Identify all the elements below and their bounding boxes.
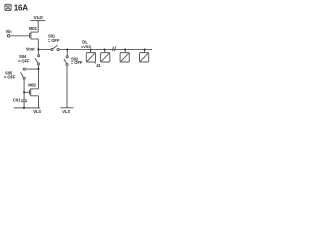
- svg-text:VLS: VLS: [33, 109, 41, 114]
- svg-text:M02: M02: [28, 82, 37, 87]
- svg-text:VLD: VLD: [34, 15, 44, 21]
- svg-text:= OFF: = OFF: [4, 75, 16, 80]
- svg-text:Vin: Vin: [6, 29, 13, 34]
- svg-text:= OFF: = OFF: [48, 38, 60, 43]
- svg-text:Vout: Vout: [26, 47, 35, 52]
- svg-text:M01: M01: [29, 26, 38, 31]
- svg-text:VLS: VLS: [62, 109, 70, 114]
- svg-text:41: 41: [96, 63, 101, 68]
- svg-text:=VSS: =VSS: [81, 44, 91, 49]
- svg-text:= OFF: = OFF: [18, 59, 30, 64]
- svg-text:= OFF: = OFF: [71, 60, 83, 65]
- svg-text:16A: 16A: [14, 3, 29, 12]
- svg-text:C01: C01: [13, 97, 21, 102]
